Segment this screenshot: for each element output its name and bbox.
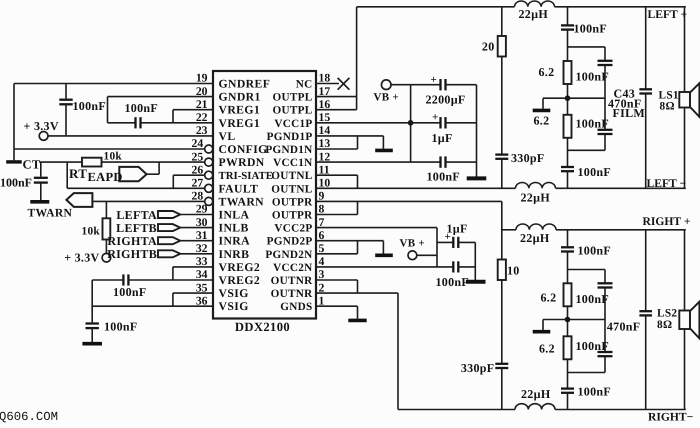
wire pin6 PGND2P — [316, 240, 383, 242]
wire VB2 to riser — [417, 254, 437, 256]
capacitor C43 470nF plates — [639, 89, 652, 93]
svg-text:10k: 10k — [104, 150, 123, 162]
svg-text:22µH: 22µH — [520, 231, 550, 245]
plus sign C6 — [431, 74, 437, 86]
svg-text:PGND2P: PGND2P — [267, 236, 313, 248]
label DDX2100 — [235, 320, 290, 334]
ground bar under C5 — [82, 342, 102, 346]
pin 30 INLB name+number — [196, 216, 249, 235]
svg-text:OUTPR: OUTPR — [272, 196, 313, 208]
capacitor 100nF C12 plates — [561, 25, 574, 29]
svg-text:CONFIG: CONFIG — [219, 143, 268, 156]
wire bottom rail L right seg — [556, 187, 686, 189]
label 22uH L2 — [521, 191, 551, 205]
wire pin20 drop — [107, 97, 109, 123]
pin 23 VL name+number — [196, 124, 236, 143]
label 6.2 R5 — [534, 113, 550, 127]
flag RIGHTB — [158, 250, 180, 257]
wire pin32 RIGHTB — [180, 253, 213, 255]
wire LS1 rail top — [684, 7, 686, 92]
pin 32 INRB name+number — [196, 242, 250, 261]
capacitor 100nF C20 plates — [561, 389, 574, 393]
label 2200uF C6 — [426, 93, 466, 107]
capacitor 100nF C2 plates — [136, 117, 141, 128]
capacitor 100nF C4 plates — [123, 274, 128, 285]
pin 26 TRI-SIATE name+number — [192, 163, 273, 182]
label 100nF C18 — [576, 292, 610, 306]
wire pin12 VCC1N — [316, 161, 441, 163]
capacitor 100nF C8 plates — [441, 156, 446, 167]
wire pin29 LEFTA — [180, 214, 213, 216]
pin 20 GNDR1 name+number — [196, 85, 261, 104]
capacitor 100nF C17 plates — [561, 247, 574, 251]
svg-text:LEFT +: LEFT + — [648, 8, 688, 21]
pin 25 PWRDN name+number — [192, 150, 265, 169]
svg-text:RIGHT−: RIGHT− — [648, 411, 693, 423]
svg-text:FILM: FILM — [613, 106, 646, 120]
flag LEFTA — [158, 211, 180, 218]
wire snubber2 mid seg — [501, 280, 503, 364]
wire pin33 VREG2 — [173, 266, 213, 268]
svg-text:100nF: 100nF — [104, 320, 138, 334]
wire pin1 GNDS — [316, 305, 358, 307]
svg-text:100nF: 100nF — [578, 165, 612, 179]
svg-text:OUTPL: OUTPL — [272, 105, 312, 117]
svg-text:100nF: 100nF — [427, 170, 461, 184]
pin 29 INLA name+number — [196, 203, 250, 222]
wire pin4 VCC2N — [316, 266, 453, 268]
resistor 6.2 R7 body — [564, 283, 572, 306]
ground bar VCC B — [466, 280, 486, 284]
ground bar GNDS — [348, 319, 366, 323]
wire Lfilter rail seg5 — [567, 171, 569, 188]
svg-text:1µF: 1µF — [447, 222, 468, 236]
capacitor 100nF C3 riser — [40, 162, 42, 177]
label EAPD — [88, 170, 123, 184]
label LEFTB — [116, 221, 157, 235]
svg-text:DDX2100: DDX2100 — [235, 320, 290, 334]
wire pin16 OUTPL — [316, 109, 357, 111]
capacitor 100nF C19 plates — [598, 352, 613, 356]
wire pin25 left seg — [22, 161, 82, 163]
pin 22 VREG1 name+number — [196, 111, 260, 130]
wire Lcolumn seg1 — [604, 47, 606, 61]
label 6.2 R4 — [539, 65, 555, 79]
plus sign C7 — [432, 112, 438, 124]
wire pin3 OUTNR — [316, 279, 358, 281]
svg-text:Q606.COM: Q606.COM — [0, 410, 58, 423]
label 20 R3 — [482, 40, 495, 54]
svg-text:8Ω: 8Ω — [657, 319, 672, 331]
svg-text:GNDR1: GNDR1 — [219, 91, 261, 104]
wire Lmid gnd drop — [542, 98, 544, 108]
capacitor 100nF C14 plates — [598, 130, 613, 134]
label 100nF C20 — [578, 384, 612, 398]
svg-text:OUTNR: OUTNR — [271, 275, 314, 287]
svg-text:100nF: 100nF — [576, 117, 610, 131]
pin 21 VREG1 name+number — [196, 98, 260, 117]
wire pin28 TWARN — [92, 200, 204, 202]
wire bottom rail L left seg — [316, 187, 516, 189]
pin 28 TWARN name+number — [192, 190, 265, 209]
svg-text:INRA: INRA — [219, 235, 251, 248]
pin 10 OUTNL name+number — [271, 177, 330, 196]
svg-text:OUTNL: OUTNL — [271, 170, 312, 182]
wire pin7 VCC2P — [316, 227, 437, 229]
wire Rfilter rail seg4 — [567, 359, 569, 388]
pin 12 VCC1N name+number — [273, 150, 330, 169]
label 22uH L4 — [521, 387, 551, 401]
wire RT junction drop — [66, 162, 68, 188]
pin 33 VREG2 name+number — [196, 255, 260, 274]
wire top rail left seg — [357, 6, 515, 8]
svg-text:OUTNL: OUTNL — [271, 183, 312, 195]
svg-text:6.2: 6.2 — [539, 341, 555, 355]
wire EAPD to node — [147, 173, 160, 175]
svg-text:RIGHT +: RIGHT + — [643, 215, 691, 228]
svg-text:+ 3.3V: + 3.3V — [24, 119, 59, 133]
wire pin33 drop — [172, 267, 174, 280]
speaker LS2 symbol — [679, 302, 699, 339]
flag LEFTB — [158, 224, 180, 231]
capacitor 470nF C44 plates — [639, 311, 652, 315]
label +3.3V B — [64, 250, 99, 264]
wire pgnd2 drop — [382, 241, 384, 254]
svg-text:20: 20 — [482, 40, 495, 54]
capacitor 1uF C9 plates — [453, 237, 458, 248]
wire right top rail seg2 — [556, 229, 686, 231]
no-connect X mark — [338, 78, 350, 90]
wire Rfilter rail seg3 — [567, 306, 569, 336]
resistor 20 R3 body — [498, 36, 506, 57]
svg-text:LEFT −: LEFT − — [647, 177, 687, 190]
svg-text:330pF: 330pF — [511, 151, 545, 165]
wire pin21 riser — [172, 110, 174, 123]
label 100nF C13 — [576, 70, 610, 84]
wire left rail — [13, 84, 15, 161]
svg-text:+: + — [431, 74, 437, 86]
capacitor 100nF C1 riser top — [65, 84, 67, 99]
svg-text:10: 10 — [507, 263, 520, 277]
svg-text:OUTPR: OUTPR — [272, 210, 313, 222]
wire bottom rail R left seg — [398, 409, 515, 411]
svg-text:VSIG: VSIG — [219, 300, 249, 313]
flag TWARN — [66, 193, 92, 207]
wire pin26 drop — [172, 175, 174, 188]
wire outpr join — [357, 201, 359, 214]
capacitor 330pF C16 plates — [495, 364, 508, 368]
pin 36 VSIG name+number — [196, 294, 249, 313]
label +3.3V A — [24, 119, 59, 133]
pin 27 FAULT name+number — [192, 177, 259, 196]
svg-text:100nF: 100nF — [125, 101, 159, 115]
wire pin27 FAULT — [67, 187, 204, 189]
wire outnr join — [357, 280, 359, 293]
wire pin15 VCC1P — [316, 122, 441, 124]
svg-text:INLB: INLB — [219, 222, 249, 235]
pin 24 CONFIG name+number — [192, 137, 268, 156]
label 1uF C7 — [432, 131, 453, 145]
svg-text:10k: 10k — [82, 226, 101, 238]
wire pin34 left seg — [92, 279, 123, 281]
svg-text:100nF: 100nF — [0, 175, 32, 189]
wire top rail right seg — [555, 6, 686, 8]
wire snubber2 top seg — [501, 201, 503, 259]
wire pin22 right seg — [141, 122, 214, 124]
svg-text:VCC2N: VCC2N — [273, 262, 312, 274]
label LEFTA — [116, 208, 157, 222]
wire vcc2 riser x437 — [436, 228, 438, 267]
wire pin24 CONFIG — [14, 148, 205, 150]
pin 1 GNDS name+number — [280, 294, 324, 313]
wire Rcolumn seg2 — [604, 288, 606, 353]
svg-text:100nF: 100nF — [578, 243, 612, 257]
pin 2 OUTNR name+number — [271, 281, 325, 300]
resistor 10k R1 body — [82, 158, 102, 167]
wire C43 rail bottom — [645, 94, 647, 189]
pin 16 OUTPL name+number — [272, 98, 330, 117]
svg-text:100nF: 100nF — [576, 70, 610, 84]
label FILM C43 — [613, 106, 646, 120]
svg-text:LEFTB: LEFTB — [116, 221, 157, 235]
svg-text:VREG2: VREG2 — [219, 261, 261, 274]
label 100nF C3 — [0, 175, 32, 189]
wire pin36 VSIG — [92, 305, 213, 307]
wire Rmid gnd drop — [542, 320, 544, 330]
svg-text:100nF: 100nF — [436, 275, 470, 289]
wire pin8 OUTPR — [316, 214, 358, 216]
ground bar under C3 — [30, 200, 49, 204]
pin 7 VCC2P name+number — [274, 216, 324, 235]
svg-text:GNDS: GNDS — [280, 301, 312, 313]
pin 6 PGND2P name+number — [267, 229, 325, 248]
wire snubber1 top seg — [501, 7, 503, 36]
wire Lsubnet top — [568, 46, 606, 48]
wire pullup top — [105, 201, 107, 218]
label 100nF C19 — [576, 339, 610, 353]
pin 18 NC name+number — [296, 72, 331, 91]
wire pgnd1 drop — [382, 136, 384, 149]
flag EAPD — [119, 167, 146, 181]
wire C8 right seg — [446, 161, 477, 163]
terminal VB+ A circle — [381, 80, 391, 90]
capacitor 1uF C7 plates — [441, 117, 446, 128]
label RIGHT- — [648, 411, 693, 424]
capacitor 100nF C1 riser bottom — [65, 104, 67, 136]
junction dot Rfilter mid — [565, 317, 571, 323]
wire C44 rail top — [645, 230, 647, 311]
label 6.2 R7 — [541, 290, 557, 304]
wire outnl join — [357, 175, 359, 188]
wire Lfilter rail seg1 — [567, 7, 569, 26]
wire pin20 GNDR1 — [108, 96, 214, 98]
capacitor 100nF C5 lower leg — [91, 328, 93, 342]
terminal CT bar — [6, 160, 22, 163]
label 10k R2 — [82, 226, 101, 238]
wire pin14 PGND1P — [316, 135, 383, 137]
wire right top rail seg1 — [502, 229, 516, 231]
label VB+ B — [400, 237, 426, 249]
label LS2 — [657, 307, 677, 319]
terminal +3.3V A circle — [39, 132, 48, 141]
wire pin11 OUTNL — [316, 174, 358, 176]
label LEFT+ — [648, 8, 688, 21]
label RIGHTB — [107, 247, 157, 261]
wire pin9 OUTPR rail — [316, 200, 502, 202]
pin 4 VCC2N name+number — [273, 255, 324, 274]
label 22uH L3 — [520, 231, 550, 245]
svg-text:VCC1P: VCC1P — [274, 118, 312, 130]
inductor 22uH L4 — [515, 404, 555, 410]
wire Rcolumn seg3 — [604, 356, 606, 372]
wire OUTPL riser — [356, 7, 358, 110]
svg-text:CT: CT — [23, 157, 41, 171]
wire Rfilter rail seg1 — [567, 230, 569, 248]
junction dot Lfilter mid — [565, 95, 571, 101]
label 10k R1 — [104, 150, 123, 162]
wire C6 right seg — [446, 84, 477, 86]
wire pin18 NC stub — [316, 83, 339, 85]
wire C44 rail bottom — [645, 315, 647, 409]
ground bar PGND1 — [375, 149, 393, 153]
wire outnr drop — [397, 293, 399, 409]
inductor 22uH L1 — [515, 1, 555, 7]
svg-text:8Ω: 8Ω — [660, 101, 675, 113]
wire vb2 gnd rail — [474, 242, 476, 280]
label 100nF C12 — [574, 22, 608, 36]
wire Lcolumn seg2 — [604, 65, 606, 130]
label 100nF C17 — [578, 243, 612, 257]
label 100nF C10 — [436, 275, 470, 289]
wire pin31 RIGHTA — [180, 240, 213, 242]
label 1uF C9 — [447, 222, 468, 236]
svg-text:LS2: LS2 — [657, 307, 677, 319]
resistor 6.2 R8 body — [564, 336, 572, 359]
pin 5 PGND2N name+number — [265, 242, 324, 261]
svg-text:6.2: 6.2 — [534, 113, 550, 127]
label 470nF C44 — [607, 320, 641, 334]
label 330pF C11 — [511, 151, 545, 165]
pin 34 VREG2 name+number — [196, 268, 260, 287]
wire VB1 to cap — [391, 84, 441, 86]
svg-text:22µH: 22µH — [521, 191, 551, 205]
label LS2 8ohm — [657, 319, 672, 331]
svg-text:PWRDN: PWRDN — [219, 156, 265, 169]
watermark Q606.COM — [0, 410, 58, 424]
capacitor 100nF C10 plates — [453, 261, 458, 272]
ground bar PGND2 — [375, 254, 393, 258]
wire snubber1 mid seg — [501, 57, 503, 155]
svg-text:OUTNR: OUTNR — [271, 288, 314, 300]
wire gnds drop — [357, 306, 359, 319]
wire Lmid wire — [543, 97, 605, 99]
capacitor 330pF C11 plates — [495, 155, 508, 159]
wire pin26 TRI-STATE — [173, 174, 204, 176]
resistor 10 R6 body — [498, 260, 506, 281]
wire 1uF C9 left seg — [437, 241, 453, 243]
wire pin30 LEFTB — [180, 227, 213, 229]
pin 17 OUTPL name+number — [272, 85, 330, 104]
ground bar Rmid — [533, 330, 551, 334]
svg-text:TWARN: TWARN — [28, 206, 73, 219]
terminal +3.3V B circle — [102, 253, 111, 262]
wire pgnd1 join — [357, 136, 359, 149]
capacitor 100nF C18 plates — [598, 283, 613, 287]
svg-text:RIGHTB: RIGHTB — [107, 247, 157, 261]
pin 15 VCC1P name+number — [274, 111, 330, 130]
wire pin2 OUTNR — [316, 292, 398, 294]
label 100nF C8 — [427, 170, 461, 184]
wire LS2 rail top — [684, 230, 686, 311]
wire Lfilter rail seg4 — [567, 138, 569, 167]
wire LS1 rail bottom — [684, 108, 686, 189]
ground bar Lmid — [533, 109, 551, 113]
resistor 6.2 R5 body — [564, 115, 572, 138]
terminal VB+ B circle — [408, 251, 417, 260]
label 470nF C43 — [608, 96, 642, 110]
label 100nF C5 — [104, 320, 138, 334]
svg-text:OUTPL: OUTPL — [272, 92, 312, 104]
svg-text:NC: NC — [296, 79, 313, 91]
svg-text:FAULT: FAULT — [219, 182, 259, 195]
wire LS2 rail bottom — [684, 329, 686, 410]
pin 14 PGND1P name+number — [267, 124, 331, 143]
label LS1 — [659, 90, 679, 102]
speaker LS1 symbol — [679, 83, 699, 117]
wire Lfilter rail seg2 — [567, 30, 569, 61]
svg-text:GNDREF: GNDREF — [219, 78, 271, 91]
pin 13 PGND1N name+number — [265, 137, 330, 156]
svg-text:VREG2: VREG2 — [219, 274, 261, 287]
svg-text:INRB: INRB — [219, 248, 250, 261]
wire pgnd2 join — [357, 241, 359, 254]
wire pin35 drop — [172, 293, 174, 306]
pin 31 INRA name+number — [196, 229, 250, 248]
wire pin19 GNDREF — [14, 83, 213, 85]
label LS1 8ohm — [660, 101, 675, 113]
svg-text:PGND2N: PGND2N — [265, 249, 312, 261]
ground bar VCC A — [467, 176, 487, 180]
wire VCC gnd rail — [476, 85, 478, 177]
svg-text:VREG1: VREG1 — [219, 104, 261, 117]
svg-text:VB +: VB + — [400, 237, 426, 249]
inductor 22uH L2 — [516, 182, 556, 188]
svg-text:RT: RT — [69, 166, 87, 181]
svg-text:TRI-SIATE: TRI-SIATE — [219, 170, 273, 182]
wire Rsubnet bottom — [568, 372, 606, 374]
wire pullup bottom — [105, 240, 107, 254]
label CT — [22, 157, 41, 171]
svg-text:EAPD: EAPD — [88, 170, 123, 184]
label TWARN — [28, 206, 73, 219]
label VB+ A — [374, 92, 400, 104]
pin 8 OUTPR name+number — [272, 203, 325, 222]
label RIGHTA — [107, 234, 157, 248]
label 100nF C15 — [578, 165, 612, 179]
svg-text:100nF: 100nF — [574, 22, 608, 36]
capacitor 100nF C15 plates — [561, 167, 574, 171]
wire 1uF C9 right seg — [458, 241, 475, 243]
pin 3 OUTNR name+number — [271, 268, 325, 287]
pin 9 OUTPR name+number — [272, 190, 325, 209]
capacitor 2200uF C6 plates — [441, 79, 446, 90]
pin 35 VSIG name+number — [196, 281, 249, 300]
capacitor 100nF C3 plates — [34, 178, 48, 183]
capacitor 100nF C5 plates — [86, 324, 99, 329]
wire bottom rail R right seg — [555, 409, 686, 411]
svg-text:100nF: 100nF — [576, 292, 610, 306]
svg-text:100nF: 100nF — [578, 384, 612, 398]
